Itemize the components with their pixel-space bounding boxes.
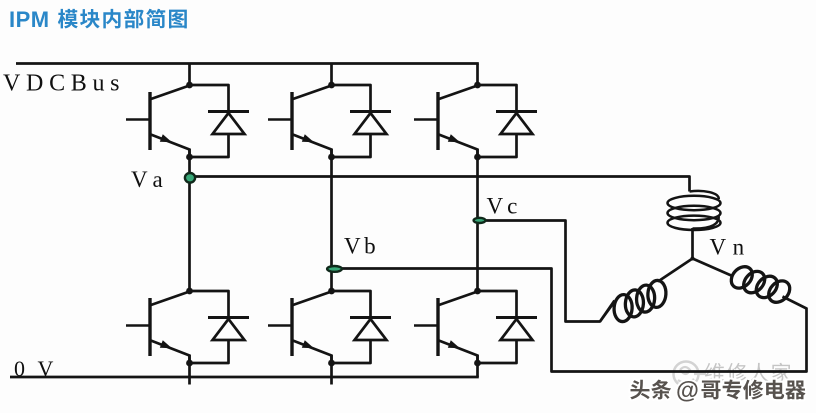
wire diode top connection D2 [332, 85, 371, 112]
transistor Q5 [290, 298, 293, 356]
wire diode top connection D5 [332, 291, 371, 318]
junction dot collector Q5 [328, 288, 335, 295]
node Vb [327, 266, 342, 272]
transistor Q1 [148, 92, 151, 150]
diode D2 [350, 110, 391, 113]
wire Q1 emitter to node Va to Q4 collector [188, 149, 191, 292]
wire Q3 emitter to node Vc to Q6 collector [476, 149, 479, 292]
junction dot emitter Q6 [474, 360, 481, 367]
junction dot emitter Q2 [328, 154, 335, 161]
wire Q2 emitter to node Vb to Q5 collector [330, 149, 333, 292]
diode D3 [496, 110, 537, 113]
wire VDC bus to Q2 collector [330, 64, 333, 86]
wire node Vn to winding L2 [658, 259, 693, 282]
svg-text:Vb: Vb [344, 234, 379, 259]
node Va [185, 173, 195, 183]
wire Q4 emitter to 0V rail [188, 355, 191, 385]
wire L1 to node Vn [691, 228, 694, 259]
junction dot collector Q4 [186, 288, 193, 295]
junction dot emitter Q5 [328, 360, 335, 367]
transistor Q4 [148, 298, 151, 356]
svg-text:Vn: Vn [710, 235, 751, 260]
wire node Vc down [478, 221, 616, 322]
wire node Vn to winding L3 [693, 259, 734, 277]
svg-text:0 V: 0 V [14, 356, 57, 381]
junction dot emitter Q3 [474, 154, 481, 161]
junction dot collector Q2 [328, 82, 335, 89]
watermark faint logo [674, 362, 707, 387]
wire node Va to winding L1 [190, 177, 690, 192]
wire diode bottom connection D3 [478, 134, 517, 157]
junction dot emitter Q1 [186, 154, 193, 161]
node Vn [691, 257, 695, 261]
svg-text:@: @ [676, 377, 699, 403]
node Vc [474, 218, 486, 223]
inductor L2 phase C winding [647, 280, 667, 308]
wire VDC bus to Q1 collector [188, 64, 191, 86]
wire diode bottom connection D4 [190, 340, 229, 363]
svg-text:Vc: Vc [487, 194, 522, 219]
wire Q6 emitter to 0V rail [476, 355, 479, 378]
wire diode top connection D6 [478, 291, 517, 318]
wire diode top connection D1 [190, 85, 229, 112]
wire node Vb down [332, 269, 807, 372]
wire diode bottom connection D5 [332, 340, 371, 363]
svg-text:Va: Va [131, 167, 170, 192]
transistor Q2 [290, 92, 293, 150]
diode D1 [208, 110, 249, 113]
wire winding L3 lower end [783, 297, 807, 309]
wire diode bottom connection D2 [332, 134, 371, 157]
transistor Q6 [436, 298, 439, 356]
transistor Q3 [436, 92, 439, 150]
wire diode top connection D4 [190, 291, 229, 318]
junction dot collector Q3 [474, 82, 481, 89]
wire diode bottom connection D1 [190, 134, 229, 157]
junction dot collector Q6 [474, 288, 481, 295]
wire winding L2 lower end [600, 301, 615, 322]
svg-text:VDCBus: VDCBus [3, 71, 125, 97]
svg-text:IPM: IPM [9, 7, 50, 32]
junction dot emitter Q4 [186, 360, 193, 367]
wire Q5 emitter to 0V rail [330, 355, 333, 385]
wire diode bottom connection D6 [478, 340, 517, 363]
wire VDC bus to Q3 collector [476, 64, 479, 86]
watermark toutiao text [630, 380, 649, 400]
wire diode top connection D3 [478, 85, 517, 112]
inductor L3 phase B winding [727, 262, 757, 292]
power rail VDC Bus [16, 62, 479, 65]
junction dot collector Q1 [186, 82, 193, 89]
diode D4 [208, 316, 249, 319]
diode D5 [350, 316, 391, 319]
diode D6 [496, 316, 537, 319]
ground rail 0V [10, 376, 479, 379]
inductor L1 phase A winding [690, 191, 719, 199]
watermark faint text [705, 363, 724, 382]
